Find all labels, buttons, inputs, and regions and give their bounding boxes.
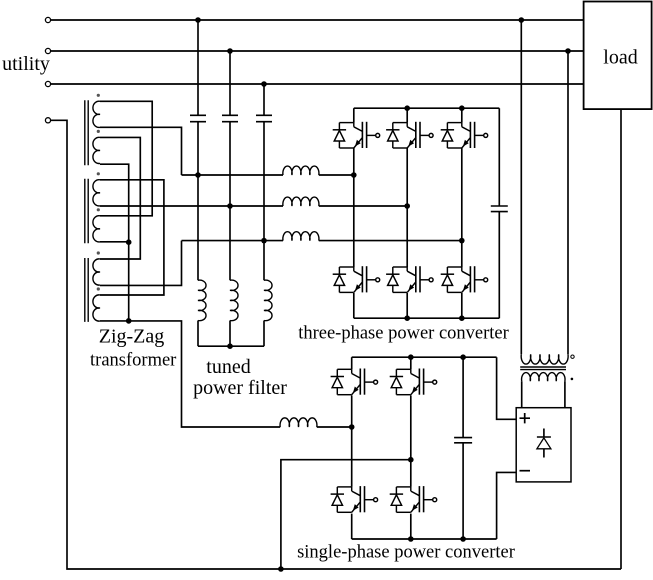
capacitor C2 plates xyxy=(222,115,238,121)
wire 1ph leg1 seg2 xyxy=(351,395,353,487)
polarity dot W1 xyxy=(97,94,100,97)
load box xyxy=(584,2,652,110)
inductor single-phase feed xyxy=(280,418,317,427)
wire 3ph leg2 seg3 xyxy=(406,293,408,318)
capacitor 1ph dc-link plates xyxy=(454,438,472,443)
core zig-zag pair 1 xyxy=(85,100,88,165)
junction leg-a on phase line 1 xyxy=(195,172,201,178)
junction feed at left leg xyxy=(349,424,355,430)
wire phase line 3 right xyxy=(319,240,462,242)
wire W3 top to W6 top xyxy=(100,180,164,295)
junction 1ph bottom bus leg2 xyxy=(408,536,414,542)
wire W2 bottom down neutral-leg xyxy=(100,164,129,321)
wire load bottom lead xyxy=(620,109,622,569)
label plus sign xyxy=(520,413,531,423)
wire 3ph leg3 seg3 xyxy=(461,293,463,318)
transistor Q8 upper leg2 xyxy=(390,369,437,395)
junction phase1 at converter leg xyxy=(351,172,357,178)
wire 3ph leg1 seg3 xyxy=(353,293,355,318)
junction 1ph top bus cap xyxy=(460,354,466,360)
winding W5 coil xyxy=(93,259,100,285)
wire phase line 1 right xyxy=(319,174,354,176)
wire W2 top to W5 top xyxy=(100,137,140,259)
wire 3ph dc branch lower xyxy=(498,212,500,319)
wire 1ph leg1 seg1 xyxy=(351,357,353,369)
rectifier box xyxy=(516,408,571,482)
winding transformer secondary xyxy=(522,373,565,382)
transistor Q4 lower leg1 xyxy=(333,266,380,292)
diode rectifier lead top xyxy=(543,429,545,438)
wire 3ph leg3 seg2 xyxy=(461,148,463,267)
diode rectifier triangle xyxy=(537,438,551,449)
junction return at leg2 xyxy=(408,457,414,463)
transistor Q1 upper leg1 xyxy=(333,122,380,148)
wire 3ph dc branch upper xyxy=(498,108,500,206)
wire utility line a xyxy=(51,19,584,21)
wire W1 bottom to phase line 1 xyxy=(100,127,182,175)
polarity dot W5 xyxy=(97,251,100,254)
wire W1 top to W4 top xyxy=(100,101,152,216)
svg-text:utility: utility xyxy=(2,53,50,75)
transistor Q6 lower leg3 xyxy=(441,266,488,292)
junction zig-zag output xyxy=(126,318,132,324)
wire secondary left lead xyxy=(521,381,523,408)
utility neutral terminal xyxy=(45,118,50,123)
wire dropper line-a to transformer primary left xyxy=(520,20,522,354)
wire dropper line-b to transformer primary right xyxy=(567,51,569,354)
wire feed right xyxy=(317,426,352,428)
junction 1ph bottom bus cap xyxy=(460,536,466,542)
wire utility line c xyxy=(51,83,584,85)
winding W2 coil xyxy=(93,137,100,163)
wire zig-zag output to single-phase converter xyxy=(129,321,281,427)
svg-text:load: load xyxy=(603,47,637,69)
wire 3ph top bus xyxy=(354,107,500,109)
transistor Q2 upper leg2 xyxy=(386,122,433,148)
junction line-a dropper xyxy=(519,17,525,23)
wire leg-a mid segment xyxy=(197,122,199,281)
junction leg-a on line a xyxy=(195,17,201,23)
wire neutral from terminal down and along bottom xyxy=(51,120,621,569)
wire phase line 1 xyxy=(182,174,284,176)
wire W6 bottom join xyxy=(100,320,129,322)
svg-text:tuned: tuned xyxy=(206,356,250,378)
junction top bus leg2 xyxy=(404,105,410,111)
wire W4 bottom join xyxy=(100,241,129,243)
utility phase-b terminal xyxy=(45,48,50,53)
transistor Q9 lower leg1 xyxy=(331,486,378,512)
wire phase line 3 xyxy=(182,240,284,242)
utility phase-c terminal xyxy=(45,81,50,86)
polarity mark primary xyxy=(571,355,574,358)
wire 3ph leg2 seg1 xyxy=(406,108,408,122)
wire 1ph leg1 seg3 xyxy=(351,514,353,539)
inductor line L-c xyxy=(283,232,319,241)
wire leg-a lower segment xyxy=(197,321,199,347)
capacitor C3 plates xyxy=(256,115,272,121)
svg-text:single-phase power converter: single-phase power converter xyxy=(297,543,515,563)
wire 1ph minus link to rectifier xyxy=(497,472,517,539)
wire phase line 2 xyxy=(100,205,283,207)
svg-text:transformer: transformer xyxy=(90,351,176,371)
polarity dot W6 xyxy=(97,287,100,290)
winding W3 coil xyxy=(93,180,100,206)
svg-text:three-phase power converter: three-phase power converter xyxy=(298,324,509,344)
transistor Q10 lower leg2 xyxy=(390,486,437,512)
junction phase3 at converter leg xyxy=(459,238,465,244)
inductor line L-b xyxy=(283,197,319,206)
wire 1ph return to neutral xyxy=(281,460,411,569)
inductor line L-a xyxy=(283,166,319,175)
polarity dot W4 xyxy=(97,208,100,211)
wire 1ph top bus xyxy=(352,356,497,358)
wire utility line b xyxy=(51,50,584,52)
inductor filter L2 coil xyxy=(230,280,238,321)
wire leg-b lower segment xyxy=(229,321,231,347)
wire 1ph bottom bus xyxy=(352,538,497,540)
junction neutral / single-phase return xyxy=(278,566,284,572)
wire leg-c upper segment xyxy=(263,84,265,115)
wire secondary right lead xyxy=(564,381,566,408)
label minus sign xyxy=(520,470,531,472)
wire 3ph leg3 seg1 xyxy=(461,108,463,122)
junction bottom bus leg3 xyxy=(459,315,465,321)
polarity dot W2 xyxy=(97,130,100,133)
winding W1 coil xyxy=(93,101,100,127)
junction leg-b on phase line 2 xyxy=(227,203,233,209)
capacitor 3ph dc-link plates xyxy=(491,206,508,212)
svg-text:power filter: power filter xyxy=(193,377,287,399)
polarity mark secondary xyxy=(571,378,574,381)
svg-text:Zig-Zag: Zig-Zag xyxy=(99,326,165,348)
transistor Q5 lower leg2 xyxy=(386,266,433,292)
wire leg-c lower segment xyxy=(263,321,265,347)
core isolation transformer xyxy=(520,367,566,370)
wire 1ph leg2 seg2 xyxy=(410,395,412,487)
junction leg-c on phase line 3 xyxy=(261,238,267,244)
polarity dot W3 xyxy=(97,172,100,175)
wire phase line 2 right xyxy=(319,205,407,207)
transistor Q3 upper leg3 xyxy=(441,122,488,148)
junction line-b dropper xyxy=(565,48,571,54)
winding W4 coil xyxy=(93,216,100,242)
wire 3ph bottom bus xyxy=(354,317,500,319)
wire 1ph leg2 seg1 xyxy=(410,357,412,369)
diode rectifier lead bottom xyxy=(543,449,545,458)
core zig-zag pair 3 xyxy=(85,258,88,322)
winding W6 coil xyxy=(93,295,100,321)
winding transformer primary xyxy=(521,354,568,364)
capacitor C1 plates xyxy=(190,115,206,121)
junction leg-b on line b xyxy=(227,48,233,54)
transistor Q7 upper leg1 xyxy=(331,369,378,395)
wire W5 bottom to phase line 3 xyxy=(100,241,182,286)
junction leg-c on line c xyxy=(261,81,267,87)
junction 1ph top bus leg2 xyxy=(408,354,414,360)
wire 1ph leg2 seg3 xyxy=(410,514,412,539)
wire 3ph leg2 seg2 xyxy=(406,148,408,267)
junction filter star point xyxy=(227,343,233,349)
wire 3ph leg1 seg1 xyxy=(353,108,355,122)
junction phase2 at converter leg xyxy=(404,203,410,209)
wire 1ph cap leg lower xyxy=(462,443,464,539)
wire leg-c mid segment xyxy=(263,122,265,281)
utility phase-a terminal xyxy=(45,17,50,22)
wire leg-b mid segment xyxy=(229,122,231,281)
wire 1ph plus link to rectifier xyxy=(497,357,517,419)
wire leg-b upper segment xyxy=(229,51,231,115)
core zig-zag pair 2 xyxy=(85,179,88,243)
wire filter star bus xyxy=(198,345,264,347)
diode rectifier cathode bar xyxy=(537,436,551,438)
inductor filter L3 coil xyxy=(264,280,272,321)
junction bottom bus leg2 xyxy=(404,315,410,321)
junction top bus leg3 xyxy=(459,105,465,111)
inductor filter L1 coil xyxy=(198,280,206,321)
junction W4-bottom on neutral-leg xyxy=(126,239,132,245)
wire 1ph cap leg upper xyxy=(462,357,464,437)
wire 3ph leg1 seg2 xyxy=(353,148,355,267)
wire leg-a upper segment xyxy=(197,20,199,115)
